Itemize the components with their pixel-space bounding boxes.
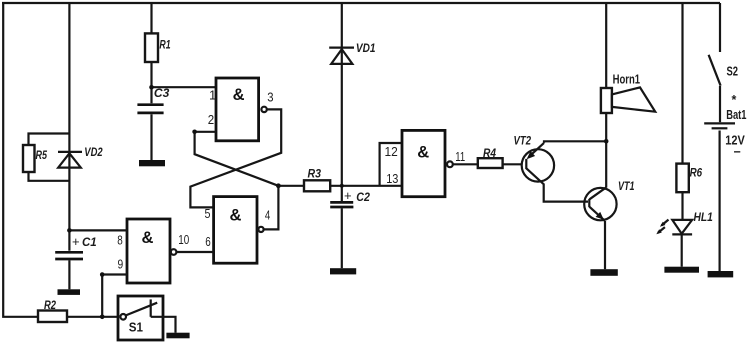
svg-text:+: + bbox=[344, 188, 352, 203]
svg-text:&: & bbox=[142, 229, 154, 247]
svg-text:11: 11 bbox=[455, 149, 465, 164]
svg-text:HL1: HL1 bbox=[694, 210, 714, 224]
svg-text:Horn1: Horn1 bbox=[613, 72, 641, 86]
svg-text:S1: S1 bbox=[129, 320, 143, 334]
svg-text:VT1: VT1 bbox=[618, 179, 635, 193]
svg-text:1: 1 bbox=[209, 88, 216, 103]
svg-text:VD1: VD1 bbox=[356, 41, 376, 55]
svg-text:2: 2 bbox=[208, 112, 214, 127]
svg-text:&: & bbox=[230, 207, 242, 225]
svg-text:13: 13 bbox=[386, 171, 398, 186]
svg-text:Bat1: Bat1 bbox=[726, 108, 746, 122]
svg-text:C3: C3 bbox=[154, 86, 170, 100]
svg-text:R1: R1 bbox=[159, 37, 170, 51]
svg-text:+: + bbox=[72, 234, 80, 249]
svg-text:C2: C2 bbox=[356, 190, 370, 204]
svg-text:R5: R5 bbox=[36, 148, 48, 162]
svg-text:&: & bbox=[417, 144, 429, 162]
svg-text:5: 5 bbox=[205, 206, 211, 221]
svg-text:R3: R3 bbox=[308, 166, 322, 180]
svg-text:9: 9 bbox=[118, 256, 124, 271]
svg-text:R2: R2 bbox=[44, 298, 56, 312]
svg-text:R6: R6 bbox=[690, 166, 703, 180]
svg-text:−: − bbox=[734, 145, 741, 159]
svg-text:3: 3 bbox=[267, 90, 273, 105]
svg-text:S2: S2 bbox=[727, 65, 739, 79]
svg-text:&: & bbox=[233, 86, 245, 104]
svg-text:R4: R4 bbox=[483, 146, 496, 160]
svg-text:*: * bbox=[732, 93, 737, 107]
svg-text:8: 8 bbox=[117, 232, 123, 247]
svg-text:6: 6 bbox=[205, 234, 211, 249]
svg-text:VT2: VT2 bbox=[514, 134, 532, 148]
svg-text:12: 12 bbox=[385, 144, 398, 159]
svg-text:10: 10 bbox=[178, 232, 189, 247]
svg-text:C1: C1 bbox=[82, 235, 97, 249]
svg-text:VD2: VD2 bbox=[84, 145, 103, 159]
svg-text:4: 4 bbox=[265, 207, 270, 222]
